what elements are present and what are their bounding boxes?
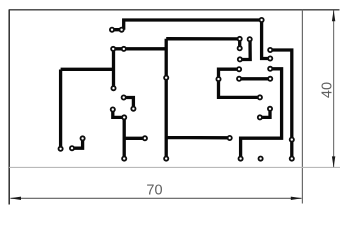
- pad net B right: [238, 37, 242, 41]
- wire net K: pad (112.8,109.5) down-right, vertical to bottom, branch to pad (145,138): [113, 110, 145, 159]
- pad net G mid: [290, 138, 294, 142]
- pad net I 1: [258, 115, 262, 119]
- pad net B 2: [122, 47, 126, 51]
- board outline bottom edge (extended right for dimension): [9, 166, 340, 168]
- pad isolated bottom: [259, 157, 263, 161]
- pad net K branch: [143, 136, 147, 140]
- wire net A: pad pair top-left, up and long run right, down to right cluster: [112, 20, 270, 59]
- wire net C: hook pad (250,39) down-left to pad (240,59): [240, 39, 250, 59]
- svg-text:70: 70: [146, 183, 162, 199]
- pad net A 1: [110, 28, 114, 32]
- pad net B bottom-left: [59, 147, 63, 151]
- pad net C 1: [248, 37, 252, 41]
- pad net G bottom: [290, 157, 294, 161]
- pad net E end: [258, 95, 262, 99]
- pad net A corner: [260, 18, 264, 22]
- pad net B right pair: [238, 46, 242, 50]
- wire net F: pad (239,79) to pad (270,78.6): [239, 77, 270, 80]
- pad net G 1: [268, 48, 272, 52]
- wire net E: pad (239,69) left, down, right to pad (260,97): [219, 69, 260, 97]
- pad net L 2: [81, 136, 85, 140]
- pad net K bottom: [122, 157, 126, 161]
- dimension line 70 (horizontal, bottom): [10, 197, 302, 200]
- pad net B 1: [111, 47, 115, 51]
- pad net I 2: [268, 107, 272, 111]
- wire net I: pad (260,117) right-up hook to pad (270,109): [260, 109, 270, 118]
- dimension line 40 (vertical, right): [332, 10, 335, 168]
- pad net B below T: [111, 86, 115, 90]
- board outline top edge (extended right for dimension): [9, 9, 340, 11]
- pad net K 2: [122, 115, 126, 119]
- pad net H 1: [268, 67, 272, 71]
- pad net B mid vertical: [164, 76, 168, 80]
- pad net A 2: [120, 28, 124, 32]
- pad net E mid: [216, 77, 220, 81]
- pad net J 2: [131, 107, 135, 111]
- pad net K 1: [111, 107, 115, 111]
- wire net H: pad (270,68.8) right, down, left, down to bottom pad: [241, 69, 282, 159]
- pad net B bottom: [164, 157, 168, 161]
- wire net L: pad (72,148) right-up hook to pad (82.6,138.4): [72, 138, 83, 148]
- svg-text:40: 40: [320, 82, 336, 98]
- pad net F 2: [268, 77, 272, 81]
- wire net B: central tree - pad pair, run right, main vertical, branches: [61, 39, 240, 159]
- pad net B branch end: [228, 136, 232, 140]
- pad net C 2: [238, 57, 242, 61]
- wire net J: pad (123.7,97.5) right-down hook to pad (133.4,108.7): [124, 98, 134, 109]
- pad net F 1: [237, 77, 241, 81]
- pad net E 1: [237, 67, 241, 71]
- board outline left edge (extended down for dimension): [8, 10, 10, 205]
- pad net A end: [268, 56, 272, 60]
- board outline right edge (extended down for dimension): [301, 10, 303, 204]
- pad net L 1: [70, 146, 74, 150]
- pad net J 1: [122, 95, 126, 99]
- pad net H bottom: [239, 157, 243, 161]
- wire net G: pad (270,50) right and long down to bottom pads: [270, 50, 292, 159]
